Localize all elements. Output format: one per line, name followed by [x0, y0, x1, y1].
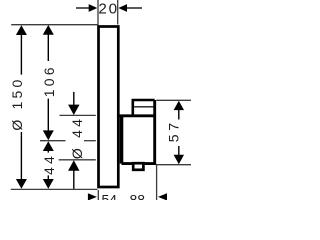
extension line: handle bottom level (y=159.8) [59, 159, 96, 161]
dim 106 line lower [47, 99, 49, 132]
extension line: 106/44 boundary right dash [84, 140, 96, 142]
dim 57 line upper [178, 109, 180, 120]
dim 57 top extension line [156, 99, 191, 101]
valve body right/bottom/left outline [122, 100, 155, 164]
cartridge cap on body [133, 100, 155, 116]
svg-text:20: 20 [98, 1, 119, 18]
extension line: top of plate (y=24.7) [11, 24, 98, 26]
svg-text:44: 44 [41, 153, 57, 175]
dim O44 upper outside arrow [68, 105, 79, 115]
dim 20 right leader [127, 7, 143, 9]
dim 57 bottom arrow [174, 155, 184, 164]
dim 106 top arrow [43, 25, 54, 35]
dim O44 upper leader [73, 92, 75, 107]
extension line: 106/44 boundary (y=140.7, gapped for text) [40, 140, 66, 142]
dim 44 short line [47, 150, 49, 153]
dim 106 line upper [47, 33, 49, 61]
svg-text:Ø 150: Ø 150 [9, 77, 25, 131]
svg-text:106: 106 [41, 64, 57, 97]
svg-text:Ø 44: Ø 44 [69, 116, 85, 159]
dim 54-88 left outside arrow [88, 193, 97, 200]
dim 106 bottom arrow [43, 130, 54, 140]
valve body left edge (merges with plate) [120, 116, 124, 164]
dim 57 top arrow [174, 101, 184, 110]
dim O150 line lower [20, 132, 22, 180]
dim 57 line lower [178, 146, 180, 156]
dim 20 right arrow [118, 4, 127, 12]
dim 20 left arrow [89, 4, 98, 12]
svg-text:54 - 88: 54 - 88 [102, 191, 146, 200]
svg-text:57: 57 [166, 119, 182, 142]
dim 44 upper arrow of bowtie [43, 141, 54, 151]
dim 20 left leader [76, 7, 90, 9]
dim O150 line upper [20, 34, 22, 75]
dim 44 lower line [47, 175, 49, 180]
dim 54-88 right extension line [156, 165, 158, 200]
dim 57 bottom extension line [156, 164, 191, 166]
wall plate (escutcheon, side view) [99, 27, 119, 188]
dim 44 bottom arrow [43, 179, 54, 189]
extension line: handle top level (y=115.4) [60, 114, 96, 116]
dim O44 lower outside arrow [68, 160, 79, 170]
dim 20 left extension line [97, 0, 99, 25]
bottom tab on body [133, 163, 143, 170]
dim O44 lower leader [73, 169, 75, 189]
dim O150 bottom arrow [16, 179, 27, 189]
dim 54-88 left extension line [97, 190, 99, 200]
cap flange line [134, 106, 154, 108]
dim 20 right extension line [117, 0, 119, 25]
extension line: bottom of plate (y=189.4) [11, 188, 98, 190]
dim 54-88 right outside arrow [158, 193, 167, 200]
dim O150 top arrow [16, 25, 27, 35]
valve body top edge [119, 114, 155, 117]
